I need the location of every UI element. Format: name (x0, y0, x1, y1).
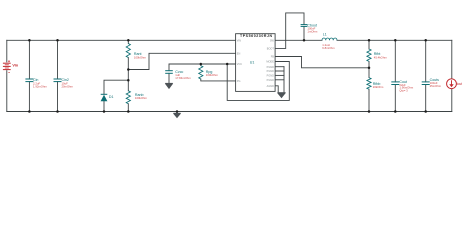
svg-text:SW: SW (270, 39, 275, 42)
svg-text:20mOhm: 20mOhm (62, 85, 74, 89)
svg-text:PGND: PGND (267, 79, 274, 82)
svg-text:1mOhm: 1mOhm (307, 29, 318, 33)
svg-text:EN: EN (237, 52, 241, 55)
svg-text:PGND: PGND (267, 70, 274, 73)
svg-text:6.8mOhm: 6.8mOhm (322, 46, 335, 50)
svg-text:45.4kOhm: 45.4kOhm (374, 55, 388, 59)
svg-text:VCC: VCC (237, 63, 242, 66)
svg-text:20kOhm: 20kOhm (373, 85, 384, 89)
svg-text:BOOT: BOOT (267, 48, 275, 51)
svg-text:100kOhm: 100kOhm (206, 73, 219, 77)
svg-text:Vin: Vin (12, 64, 19, 68)
svg-text:U1: U1 (250, 60, 255, 64)
svg-text:TPS560230RJN: TPS560230RJN (240, 34, 273, 38)
svg-text:PGND: PGND (267, 75, 274, 78)
svg-text:L1: L1 (323, 32, 327, 36)
svg-text:Iout: Iout (457, 82, 463, 86)
svg-text:VIN: VIN (237, 39, 241, 42)
svg-text:MODE: MODE (266, 61, 274, 64)
svg-text:1.92mOhm: 1.92mOhm (33, 85, 48, 89)
svg-text:PG: PG (237, 80, 241, 83)
svg-text:Qty= 3: Qty= 3 (399, 89, 408, 93)
svg-text:FB: FB (271, 56, 275, 59)
svg-text:25mOhm: 25mOhm (430, 84, 442, 88)
svg-text:D1: D1 (109, 95, 114, 99)
svg-text:17.84mOhm: 17.84mOhm (175, 76, 191, 80)
svg-text:AGND: AGND (267, 85, 274, 88)
svg-text:PGND: PGND (267, 66, 274, 69)
svg-text:100kOhm: 100kOhm (135, 96, 148, 100)
svg-text:100kOhm: 100kOhm (134, 55, 147, 59)
